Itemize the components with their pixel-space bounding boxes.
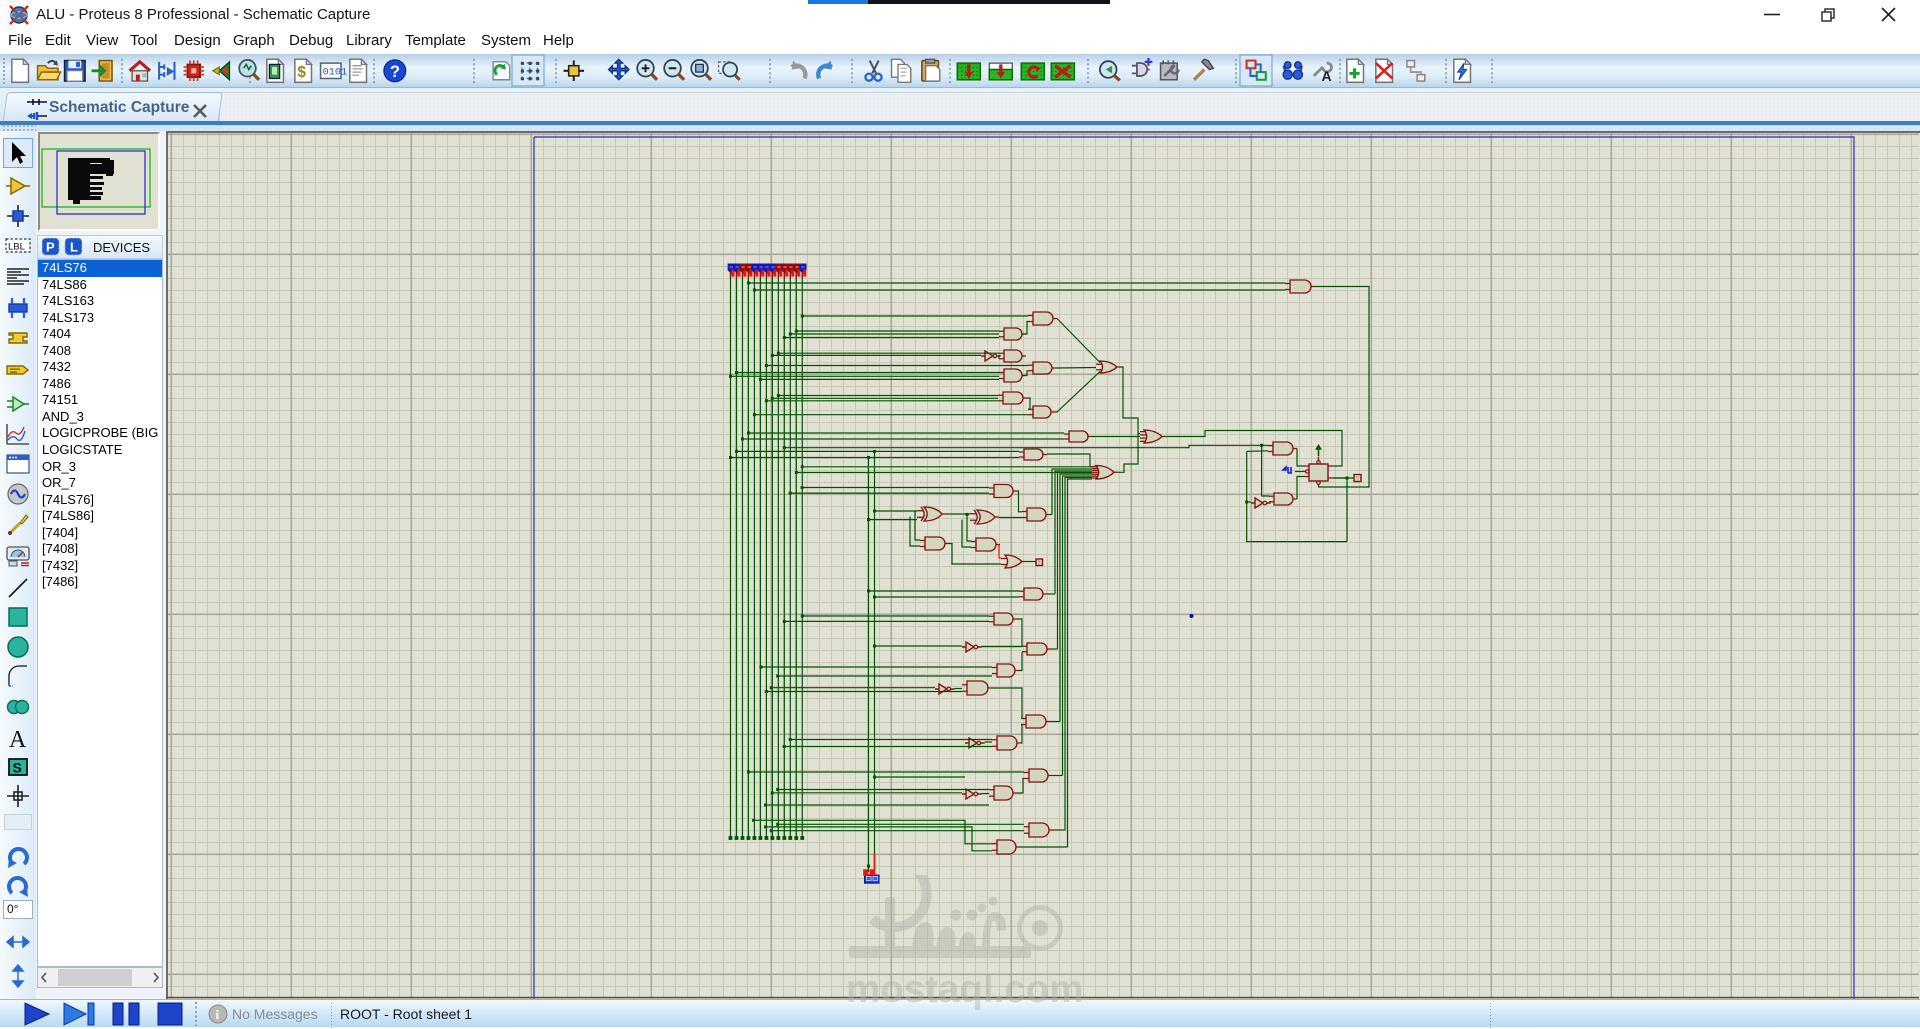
wire to U21 inverter (875, 645, 963, 647)
AND gate U16 (920, 537, 949, 550)
wire probe-col to U14 in2 (869, 519, 918, 521)
wire U34 out loop to FF bottom (1315, 287, 1369, 488)
AND gate U12 (1019, 449, 1047, 460)
inverter U3 (981, 351, 1001, 361)
svg-text:i: i (216, 1007, 220, 1022)
long wire bus to U35 in1 (784, 445, 1268, 447)
AND gate U23 (992, 664, 1019, 677)
AND gate U32 (1024, 823, 1053, 837)
input logicstate 9 (776, 264, 782, 278)
wire to U23 in2 (778, 675, 992, 677)
AND gate U26 (1021, 715, 1050, 728)
AND gate U8 (1028, 406, 1055, 418)
input logicstate 11 (788, 264, 794, 278)
junction at probe (867, 865, 870, 868)
junction probe wire right (873, 450, 876, 453)
wire mid U7 (772, 397, 998, 399)
wire to U25 in2 (766, 691, 962, 693)
power symbol (VCC arrow) (1316, 449, 1322, 456)
AND gate U20 (989, 613, 1017, 625)
svg-text:0101: 0101 (323, 67, 348, 79)
wire U24 out to U25 in1 (955, 688, 962, 690)
OR gate U11 (1140, 430, 1166, 443)
XOR gate U14 (917, 507, 946, 521)
bundle wire x=889 (1055, 471, 1092, 594)
wire U23 out to U22 in2 (1019, 652, 1022, 671)
AND gate U10 (1064, 431, 1092, 442)
AND gate U22 (1022, 643, 1051, 655)
AND gate U4 (999, 350, 1026, 362)
input logicstate 5 (752, 264, 758, 278)
input logicstate 6 (758, 264, 764, 278)
wire U30 out to U31 in2 (982, 793, 989, 795)
input logicstate 4 (746, 264, 752, 278)
inverter U24 (935, 684, 955, 694)
AND gate U19b (989, 485, 1017, 498)
wire to U6 in2 (760, 378, 999, 380)
wire U19b out to U19c in1 (1017, 491, 1022, 512)
wire U10 out to U11 in (1092, 436, 1140, 438)
wire down to U17 in1 (967, 514, 971, 541)
junction U35/U36 (1260, 444, 1263, 447)
wire to U30 inverter (772, 792, 962, 794)
input logicstate 8 (770, 264, 776, 278)
wire U26 out to bundle (1050, 721, 1060, 723)
wire to U10 in2 (742, 438, 1064, 440)
wire U19c out to bundle (1050, 514, 1052, 516)
wire to U12 in1 (736, 450, 1019, 452)
AND gate U29 (1024, 769, 1052, 782)
wire to U32 in2 (771, 830, 1024, 832)
AND gate U19c (1022, 508, 1050, 521)
wire U8 out diag to U9 (1055, 372, 1100, 413)
input logicstate 3 (740, 264, 746, 278)
AND gate U31 (989, 786, 1017, 800)
bundle wire x=896.5 (1063, 476, 1093, 776)
AND gate U1 (top) (1028, 312, 1057, 325)
svg-text:mostaql.com: mostaql.com (846, 968, 1083, 1011)
feedback vertical (1247, 451, 1347, 541)
wire to U28 via inverter col (790, 739, 992, 741)
wire U15 out to U19c in2 (999, 517, 1022, 519)
bundle wire x=891.5 (1058, 473, 1093, 650)
wire bus to U19b in1 (802, 487, 989, 489)
wire U5 out to U9 (1056, 367, 1096, 370)
svg-text:$: $ (297, 64, 306, 81)
AND gate U25 (962, 681, 992, 695)
svg-text:L: L (70, 240, 78, 255)
canvas frame (166, 131, 1919, 999)
wire to U19 in1 (869, 590, 1020, 592)
svg-text:S: S (13, 760, 22, 776)
svg-text:?: ? (1356, 477, 1359, 483)
wire U35 out to FF (1297, 449, 1304, 467)
AND gate U28 (992, 736, 1021, 750)
wire to U16 in2 (910, 517, 920, 547)
input logicstate 7 (764, 264, 770, 278)
wire to U3 inverter in (772, 354, 981, 356)
wire left probe vertical (868, 458, 870, 873)
junction N6 feed (1245, 501, 1248, 504)
AND gate U17 (971, 538, 1000, 551)
wire to U24 inverter (771, 687, 935, 689)
junction Q (1346, 477, 1349, 480)
OR gate U9 (1096, 361, 1121, 373)
wire lower branch (766, 804, 989, 806)
wire clock stub (1295, 471, 1306, 473)
wire to U31 in1 (778, 789, 989, 791)
wire to U33 in2 (766, 827, 992, 851)
wire U27 out to U28 (985, 741, 992, 743)
AND gate U6 (999, 369, 1026, 382)
wire U3 out to U4 in2 (999, 356, 1001, 359)
AND gate U34 (top right) (1285, 280, 1315, 293)
OR gate U13 (7-input) (1092, 466, 1118, 480)
AND gate U2 (999, 328, 1026, 340)
wire U14 out to U15 in1 (946, 513, 970, 515)
junction probe wire left (867, 456, 870, 459)
mouse no-connect dot (blue) (1190, 614, 1194, 618)
AND gate U19 (1019, 588, 1047, 600)
wire U12 out drop to U13 top input (1047, 454, 1092, 467)
input logicstate 10 (782, 264, 788, 278)
svg-text:?: ? (390, 62, 400, 81)
wire U19 out to bundle (1047, 593, 1055, 595)
wire U36 out to FF (1297, 477, 1304, 500)
wire U6 out to U5 in2 (1022, 371, 1028, 376)
wire to U2 in2 (784, 337, 999, 339)
wire to U8 in2 (754, 414, 1028, 416)
wire bus0 branch (731, 375, 1000, 377)
wire to U12 in2 (731, 457, 1020, 459)
AND gate U33 (992, 840, 1020, 854)
OR gate U18 (1001, 555, 1026, 568)
wire U33 out to bundle (1020, 846, 1068, 848)
wire to U7 in2 (766, 400, 998, 402)
input logicstate 12 (794, 264, 800, 278)
input logicstate 2 (734, 264, 740, 278)
wire U18 out to terminal (1026, 561, 1036, 563)
wire to U10 in1 (748, 432, 1064, 434)
wire to U7 in1 (778, 395, 998, 397)
wire U32 out to bundle (1053, 829, 1065, 831)
wire to U20 in1 (802, 615, 989, 617)
svg-text:?: ? (1038, 561, 1041, 567)
wire to U33 in1 (754, 820, 992, 844)
wire to U16 in1 (915, 511, 920, 541)
wire probe-col junction (875, 776, 966, 778)
wire to U20 in2 (784, 620, 989, 622)
wire bus to U19b in2 (790, 492, 989, 494)
red wire U17 out to U18 in1 (999, 544, 1000, 546)
bundle wire x=901.5 (1068, 479, 1093, 847)
terminal box Q (1354, 475, 1361, 482)
wire U7 out to U8 in1 (1027, 398, 1030, 409)
wire to U4 in1 (778, 352, 999, 354)
wire to U29 in1 (748, 771, 1024, 773)
wire U25 out to U26 in1 (992, 688, 1022, 718)
wire U16 out to U18 in2 (949, 544, 1001, 565)
wire to U36 in1 (1262, 445, 1269, 496)
wire mid U13 (796, 472, 1092, 474)
wire mid U2 (790, 333, 999, 335)
wire down to U13 out net (1118, 434, 1138, 473)
bundle wire x=886 (1052, 469, 1092, 515)
wire to U23 in1 (761, 666, 992, 668)
input logicstate 13 (800, 264, 806, 278)
sheet border (534, 137, 1854, 999)
wire U11 out to FF NE (1166, 431, 1342, 467)
wire Q to terminal (1334, 477, 1354, 479)
bus wires vertical (730, 278, 732, 838)
bundle wire x=899 (1065, 478, 1092, 831)
wire to U5 in1 (766, 365, 1028, 367)
wire to U28 in2 (784, 746, 992, 748)
wire to U2 in1 (796, 330, 999, 332)
wire to U13 in1 (802, 466, 1092, 468)
staircase U9 out to U11/U13 (1121, 367, 1140, 434)
wire U29 out to bundle (1052, 775, 1063, 777)
inverter U37 (1251, 498, 1271, 508)
terminal box sum (1036, 559, 1043, 566)
wire A-in to U34 in1 (748, 282, 1285, 284)
AND gate U36 (1269, 493, 1297, 505)
XOR gate U15 (970, 510, 999, 524)
inverter U27 (965, 738, 985, 748)
wire to U19 in2 (875, 596, 1020, 598)
svg-text:A: A (1322, 68, 1332, 84)
red wire into probe (874, 853, 876, 875)
wire Q feedback (1334, 478, 1347, 542)
input logicstate 1 (728, 264, 734, 278)
wire U37 out to U36 in2 (1269, 501, 1271, 503)
inverter U21 (962, 642, 982, 652)
wire to U6 in1 (736, 372, 999, 374)
AND gate U7 (998, 392, 1027, 404)
wire U22 out to bundle (1051, 648, 1058, 650)
svg-text:LBL: LBL (8, 242, 25, 253)
wire probe-col to U14 in1 (875, 510, 918, 512)
bundle wire x=894 (1060, 474, 1092, 722)
wire U2 out to U1 in2 (1022, 322, 1028, 335)
wire right probe vertical (874, 451, 876, 853)
clock label (blue) (1283, 467, 1292, 473)
wire feedback top to U35 in2 (1247, 450, 1268, 453)
svg-text:A: A (9, 727, 27, 753)
red active wire (999, 545, 1001, 559)
AND gate U5 (1028, 362, 1056, 374)
junction U15 in (966, 513, 969, 516)
AND gate U35 (1268, 442, 1297, 455)
wire to U1 in1 (802, 315, 1028, 317)
logicprobe (blue, bottom) (863, 869, 879, 883)
flip-flop U38 (74LS76 body) (1304, 457, 1334, 488)
wire U28 out to U26 in2 (1021, 725, 1022, 744)
wire U20 out (1017, 619, 1022, 646)
wire U21 out to U22 in1 (982, 645, 1022, 648)
wire U1 out diag to U9 (1057, 319, 1100, 363)
wire B-in to U34 in2 (754, 289, 1285, 291)
wire to U37 inverter (1247, 501, 1251, 503)
svg-text:P: P (46, 240, 55, 255)
inverter U30 (962, 789, 982, 799)
wire U31 out to U29 in2 (1017, 779, 1024, 794)
wire to U17 in2 (962, 520, 971, 547)
wire to U32 in1 (778, 823, 1024, 825)
